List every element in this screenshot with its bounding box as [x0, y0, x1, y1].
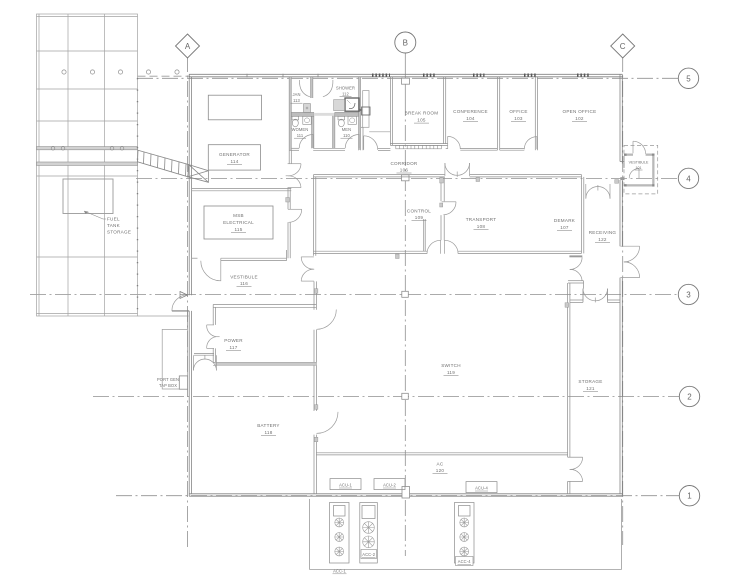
gridline 1 [116, 495, 680, 497]
vestibule116 east door [301, 257, 314, 281]
door corridor alcove [364, 136, 378, 150]
svg-text:106: 106 [400, 168, 409, 173]
svg-text:FUEL: FUEL [107, 217, 120, 222]
ramp end X box [188, 165, 208, 183]
svg-text:AC: AC [437, 462, 444, 467]
svg-text:JAN: JAN [292, 92, 300, 97]
women sink [303, 116, 311, 124]
power room top wall [213, 304, 316, 306]
receiving east exterior double door [620, 246, 639, 277]
svg-text:117: 117 [229, 345, 237, 350]
canopy column circles row top [62, 70, 179, 74]
svg-text:PORT GEN: PORT GEN [157, 377, 179, 382]
svg-text:109: 109 [415, 215, 424, 220]
B marker square bottom wall [402, 487, 410, 499]
svg-text:CORRIDOR: CORRIDOR [390, 161, 417, 166]
msb south wall [192, 257, 198, 259]
corridor west wall upper [288, 150, 290, 163]
right wall mid [619, 180, 621, 246]
west entry jog wall [186, 311, 188, 329]
ACC-2 condenser [360, 503, 378, 564]
svg-text:114: 114 [230, 159, 238, 164]
svg-text:1: 1 [687, 492, 692, 501]
ACU-4 box [466, 482, 497, 493]
svg-text:ACC-1: ACC-1 [333, 569, 346, 574]
fuel tank pad [63, 179, 113, 214]
washblock wall grey fills [289, 77, 360, 150]
control thin partition [423, 219, 425, 251]
canopy walkway edge to building [138, 315, 189, 317]
svg-text:115: 115 [234, 227, 242, 232]
canopy band beams [37, 147, 138, 166]
svg-text:TRANSPORT: TRANSPORT [466, 217, 497, 222]
svg-text:MSB: MSB [233, 213, 244, 218]
women toilet [292, 116, 299, 120]
svg-text:WOMEN: WOMEN [292, 127, 309, 132]
storage west upper jog [567, 283, 569, 302]
generator pad [208, 95, 261, 120]
conference south wall segs [446, 147, 448, 149]
door women 111 [299, 135, 313, 149]
svg-text:113: 113 [293, 98, 300, 103]
svg-text:ACC-2: ACC-2 [362, 552, 375, 557]
corridor double door to transport [445, 163, 470, 177]
storage west butterfly door [570, 457, 583, 481]
svg-text:ACU-2: ACU-2 [383, 483, 396, 488]
svg-text:SWITCH: SWITCH [441, 363, 461, 368]
battery east wall pieces [313, 330, 315, 411]
gridline 2 [93, 396, 680, 398]
right wall lower [619, 278, 621, 494]
msb room walls [192, 189, 292, 261]
jan-shower wall [310, 77, 312, 98]
svg-text:VESTIBULE: VESTIBULE [629, 161, 649, 165]
svg-text:122: 122 [598, 237, 607, 242]
B marker square gridline4 [402, 175, 410, 181]
washroom block left wall [288, 77, 290, 151]
B marker square gridline3 [402, 291, 409, 297]
grid marker 1 [679, 486, 699, 506]
conference west wall [442, 77, 444, 144]
battery east door [317, 412, 339, 434]
storage west wall [567, 302, 569, 457]
vestibule116 / power walls [194, 281, 568, 493]
vestibule east wall [313, 281, 315, 309]
corridor south wall / control block top wall [314, 175, 584, 256]
svg-text:107: 107 [560, 225, 569, 230]
msb room door [288, 209, 302, 222]
svg-text:118: 118 [264, 430, 272, 435]
grid marker 3 [678, 284, 698, 304]
break room counter hatch [396, 145, 442, 148]
door control room SE [427, 240, 441, 254]
ACU-1 box [330, 479, 361, 490]
svg-text:110: 110 [343, 133, 350, 138]
control block south wall [314, 250, 428, 252]
svg-text:101: 101 [636, 166, 642, 170]
door conference 104 [448, 136, 461, 149]
receiving north wall dark jog [620, 177, 624, 180]
control west wall [313, 175, 315, 256]
storage door jambs [568, 456, 583, 458]
switch hall door at power NE [317, 310, 337, 330]
svg-text:103: 103 [514, 116, 523, 121]
office west wall [496, 77, 498, 150]
canopy horizontal members [37, 50, 138, 52]
grid marker B circle [395, 32, 416, 53]
svg-text:RECEIVING: RECEIVING [589, 230, 617, 235]
shower bench [334, 100, 345, 111]
receiving north double door [586, 184, 610, 199]
ACC-1 condenser [330, 503, 350, 564]
men west wall [332, 114, 334, 148]
svg-text:119: 119 [447, 370, 455, 375]
svg-text:OFFICE: OFFICE [509, 109, 527, 114]
svg-text:5: 5 [686, 74, 691, 83]
gridline A [187, 56, 189, 548]
canopy right edge dotted [137, 78, 139, 316]
canopy column circles mid band [51, 146, 124, 150]
demark east wall [581, 175, 583, 254]
ACC-1 fans [335, 518, 344, 556]
svg-text:4: 4 [686, 174, 691, 183]
svg-text:BATTERY: BATTERY [257, 423, 280, 428]
grid marker 5 [678, 68, 698, 88]
top wall [189, 73, 622, 75]
door transport SW [445, 240, 459, 254]
svg-text:VESTIBULE: VESTIBULE [230, 275, 258, 280]
svg-text:TAP BOX: TAP BOX [159, 383, 177, 388]
ACU-2 box [374, 479, 405, 490]
svg-text:CONTROL: CONTROL [407, 209, 431, 214]
left wall [188, 74, 190, 295]
grid marker A diamond [176, 34, 200, 58]
shower stall [345, 98, 359, 111]
svg-text:ACC-4: ACC-4 [458, 559, 471, 564]
men toilet [338, 116, 345, 120]
svg-text:GENERATOR: GENERATOR [219, 152, 250, 157]
port gen tap box [162, 329, 187, 389]
vestibule101 outer door [633, 141, 646, 154]
svg-text:CONFERENCE: CONFERENCE [453, 109, 488, 114]
vestibule101 dashed outline [624, 145, 658, 194]
west entry double door to battery [193, 355, 216, 370]
canopy vertical mullions [67, 14, 69, 316]
svg-text:120: 120 [436, 468, 445, 473]
svg-text:108: 108 [477, 224, 486, 229]
door transport west [442, 202, 456, 215]
svg-text:MEN: MEN [342, 127, 351, 132]
fuel tank label leader [84, 211, 106, 219]
90 tick vestibule [615, 180, 619, 184]
svg-text:112: 112 [342, 92, 349, 97]
openoffice west wall [534, 77, 536, 150]
grid marker 4 [678, 168, 698, 188]
section cut triangle at gridline3 [180, 292, 188, 299]
storage north wall [570, 299, 583, 301]
door shower 112 [323, 80, 333, 97]
svg-text:A: A [185, 42, 191, 51]
corridor west wall low [287, 222, 289, 258]
gridline B [404, 53, 406, 100]
corridor west wall mid [287, 188, 289, 210]
door office 103 [524, 137, 537, 150]
door men 110 [345, 135, 359, 149]
gridline 3 [30, 294, 679, 296]
jan mop sink [304, 104, 311, 113]
vestibule101 inner door [629, 168, 639, 178]
svg-text:ELECTRICAL: ELECTRICAL [223, 220, 254, 225]
gridline 5 [137, 77, 679, 79]
GRIDLINES GROUP [30, 53, 680, 556]
svg-text:102: 102 [575, 116, 584, 121]
west entry south wall [194, 353, 214, 355]
storage room walls [568, 281, 620, 494]
alcove shelf line [369, 131, 390, 133]
bottom wall [189, 493, 622, 495]
receiving south wall [568, 280, 584, 282]
B marker square gridline2 [402, 393, 409, 399]
svg-text:3: 3 [686, 291, 691, 300]
svg-text:B: B [403, 39, 408, 48]
right wall upper [619, 74, 621, 161]
washroom south wall segments [289, 147, 299, 149]
svg-text:C: C [620, 42, 626, 51]
CANOPY trellis structure top-left [37, 14, 138, 316]
svg-text:DEMARK: DEMARK [554, 218, 576, 223]
top wall panel joint ticks [247, 74, 318, 78]
power west wall [212, 305, 214, 325]
receiving SW butterfly door [570, 257, 583, 281]
gridline 4 [136, 177, 679, 179]
women chase wall [311, 114, 313, 148]
svg-text:105: 105 [417, 118, 426, 123]
power room wall fill [215, 362, 316, 365]
power south wall [213, 361, 316, 363]
corridor alcove wall [361, 126, 363, 128]
svg-text:ACU-1: ACU-1 [339, 483, 352, 488]
svg-text:111: 111 [297, 133, 304, 138]
nw room butterfly door [286, 164, 301, 188]
right wall jog at vestibule101 [620, 161, 625, 163]
grid marker 2 [679, 386, 699, 406]
svg-text:STORAGE: STORAGE [107, 230, 131, 235]
west exterior door [172, 310, 189, 312]
svg-text:TANK: TANK [107, 223, 121, 228]
svg-text:116: 116 [240, 281, 248, 286]
svg-text:121: 121 [586, 386, 595, 391]
door jan 113 [299, 80, 309, 97]
washroom block right wall [358, 77, 360, 151]
vestibule116 west door [201, 258, 221, 281]
demark south dark segment [569, 255, 582, 257]
INTERIOR WALLS [288, 77, 390, 258]
break room south wall [390, 143, 447, 145]
break room west wall [390, 77, 537, 150]
ACC yard enclosure [310, 499, 622, 570]
men sink [348, 116, 356, 124]
AC room north wall [316, 452, 567, 454]
B marker square on top wall [402, 78, 410, 84]
svg-text:ACU-4: ACU-4 [475, 486, 488, 491]
generator room enclosure [208, 145, 260, 170]
gridline C [622, 56, 624, 545]
svg-text:SHOWER: SHOWER [336, 86, 355, 91]
generator-msb wall [192, 188, 292, 190]
svg-text:STORAGE: STORAGE [578, 379, 602, 384]
ACC-2 fans [363, 522, 375, 548]
storage north double door [583, 289, 608, 303]
svg-text:104: 104 [466, 116, 475, 121]
MSB switchboard box [204, 206, 273, 239]
vestibule101 west wall [623, 156, 625, 168]
svg-text:POWER: POWER [224, 338, 243, 343]
dashed line canopy to building [138, 75, 191, 77]
ACC-4 fans [460, 518, 469, 556]
washroom plumbing wall band [291, 112, 314, 116]
svg-text:BREAK ROOM: BREAK ROOM [405, 111, 439, 116]
svg-text:2: 2 [687, 393, 692, 402]
window bands on top wall [372, 73, 589, 76]
ACC-4 condenser [455, 503, 475, 564]
small 90 door ticks [286, 178, 569, 442]
svg-text:OPEN OFFICE: OPEN OFFICE [563, 109, 597, 114]
office south wall segs [500, 147, 525, 149]
ramp hatched [138, 150, 189, 177]
EXTERIOR WALLS [189, 74, 625, 496]
chase column right of washblock [363, 91, 369, 128]
grid marker C diamond [611, 34, 635, 58]
power west butterfly door [207, 325, 220, 349]
vestibule101 walls [624, 154, 655, 187]
control-transport wall [440, 177, 442, 201]
